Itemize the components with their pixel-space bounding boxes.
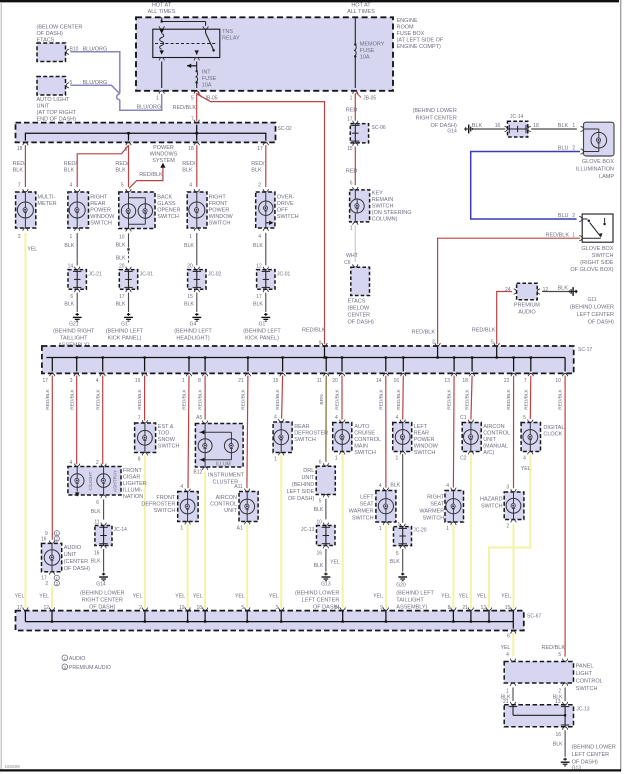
switch EST & TOD SNOW SWITCH	[135, 415, 180, 462]
svg-text:MAIN: MAIN	[354, 443, 368, 449]
svg-text:UNIT: UNIT	[483, 437, 496, 443]
svg-text:OF DASH): OF DASH)	[89, 604, 115, 610]
svg-text:RED/BLK: RED/BLK	[558, 388, 564, 409]
connector JC-01 (second)	[256, 263, 290, 299]
svg-text:1: 1	[350, 225, 353, 231]
svg-text:BLK: BLK	[91, 558, 101, 564]
svg-text:AIRCON: AIRCON	[216, 495, 237, 501]
SC-17 top pins 9 / 3 / 5	[322, 343, 500, 346]
svg-text:7: 7	[18, 182, 21, 188]
svg-text:4: 4	[180, 484, 183, 490]
svg-text:GLASS: GLASS	[157, 201, 176, 207]
svg-text:ENGINE COMPT): ENGINE COMPT)	[397, 44, 441, 50]
wire RED/BLK from SC-17 pin 5 to premium audio pin 24	[472, 292, 512, 346]
svg-text:YEL: YEL	[500, 645, 510, 651]
lamp GLOVE BOX ILLUMINATION LAMP	[572, 122, 614, 180]
svg-text:FUSE: FUSE	[360, 48, 375, 54]
svg-text:BLU/ORG: BLU/ORG	[83, 47, 108, 53]
svg-text:SWITCH: SWITCH	[209, 220, 231, 226]
wire BLU from lamp pin 2 to GLOVE BOX SWITCH pin 2	[471, 146, 580, 220]
svg-text:17: 17	[257, 146, 263, 152]
connector JC-14 (lower)	[94, 520, 127, 557]
svg-text:BACK: BACK	[157, 194, 172, 200]
svg-text:20: 20	[187, 263, 193, 269]
svg-text:OPENER: OPENER	[157, 207, 180, 213]
svg-text:18: 18	[533, 123, 539, 129]
svg-text:AUDIO: AUDIO	[64, 545, 82, 551]
switch BACK GLASS OPENER SWITCH	[119, 182, 181, 240]
svg-text:4: 4	[379, 483, 382, 489]
svg-text:3: 3	[506, 484, 509, 490]
svg-text:ASSEMBLY): ASSEMBLY)	[396, 604, 427, 610]
svg-text:2: 2	[139, 605, 142, 611]
svg-text:RED/BLK: RED/BLK	[69, 388, 75, 409]
svg-text:17: 17	[119, 294, 125, 300]
svg-text:(CENTER: (CENTER	[64, 559, 88, 565]
svg-text:5: 5	[558, 652, 561, 658]
fuse INT FUSE 10A	[187, 64, 217, 89]
svg-text:17: 17	[17, 605, 23, 611]
svg-text:(BELOW CENTER: (BELOW CENTER	[37, 25, 83, 31]
svg-text:POWER: POWER	[90, 207, 111, 213]
svg-text:REAR: REAR	[294, 424, 309, 430]
svg-text:AUTO LIGHT: AUTO LIGHT	[37, 97, 71, 103]
svg-text:1: 1	[156, 95, 159, 101]
svg-text:UNIT: UNIT	[301, 475, 314, 481]
svg-text:BLK: BLK	[253, 243, 263, 249]
svg-text:20: 20	[332, 378, 338, 384]
svg-text:JC-13: JC-13	[301, 527, 315, 533]
svg-text:BLK: BLK	[184, 243, 194, 249]
svg-text:HOT AT: HOT AT	[152, 3, 172, 9]
svg-text:BLK: BLK	[184, 301, 194, 307]
SC-17 bottom pins	[43, 373, 568, 383]
svg-text:SWITCH: SWITCH	[154, 508, 176, 514]
svg-text:POWER: POWER	[153, 145, 174, 151]
svg-text:RED/: RED/	[251, 161, 265, 167]
svg-text:1: 1	[446, 526, 449, 532]
svg-text:SWITCH: SWITCH	[372, 204, 394, 210]
svg-text:2: 2	[558, 688, 561, 694]
svg-text:(AT LEFT SIDE OF: (AT LEFT SIDE OF	[397, 38, 444, 44]
wire YEL audio unit to SC-67 pin 12	[39, 586, 52, 608]
svg-text:15: 15	[347, 146, 353, 152]
svg-text:OF DASH): OF DASH)	[288, 496, 314, 502]
wire BRN SC-17 pin 11 to DRL unit	[325, 376, 327, 462]
SC-02 pin 6	[125, 142, 132, 153]
ground G21 (behind right taillight assembly)	[53, 322, 95, 349]
svg-text:JC-02: JC-02	[208, 271, 222, 277]
wire YEL front defroster switch to SC-67 pin 19	[175, 524, 187, 609]
connector JC-14 (upper)	[495, 114, 539, 137]
svg-text:BLK: BLK	[390, 483, 400, 489]
wire YEL auto cruise to SC-67 pin 14	[330, 454, 343, 608]
wire YEL hazard switch to SC-67 pin 15	[501, 524, 513, 608]
wire YEL rear defroster switch to SC-67 pin 3	[269, 455, 281, 608]
svg-text:YEL: YEL	[269, 594, 279, 600]
svg-text:(BEHIND LOWER: (BEHIND LOWER	[80, 590, 124, 596]
svg-text:CLOCK: CLOCK	[543, 431, 562, 437]
svg-text:192809: 192809	[5, 764, 21, 769]
wire RED/BLK SC-17 pin 1 to front defroster switch	[188, 376, 189, 489]
svg-text:PREMIUM AUDIO: PREMIUM AUDIO	[69, 665, 111, 671]
label RED/BLK at panel light control switch pin 5	[542, 645, 566, 651]
wire RED from SC-06 pin 15 to KEY REMAIN SWITCH	[346, 147, 358, 186]
svg-text:(AT TOP RIGHT: (AT TOP RIGHT	[37, 110, 77, 116]
wire RED/BLK SC-02 pin 18 to right front power window switch	[182, 145, 197, 187]
svg-text:6: 6	[96, 500, 99, 506]
svg-text:YEL: YEL	[15, 594, 25, 600]
svg-text:2: 2	[96, 460, 99, 466]
svg-text:RED/BLK: RED/BLK	[275, 388, 281, 409]
svg-text:9: 9	[380, 605, 383, 611]
connector JC-20	[394, 522, 427, 557]
svg-text:LIGHT: LIGHT	[576, 671, 593, 677]
svg-text:RED/BLK: RED/BLK	[523, 388, 529, 409]
svg-text:20: 20	[119, 263, 125, 269]
svg-text:(MANUAL: (MANUAL	[483, 443, 508, 449]
svg-text:RED/BLK: RED/BLK	[472, 327, 496, 333]
switch PANEL LIGHT CONTROL SWITCH	[504, 652, 602, 694]
svg-text:FRONT: FRONT	[123, 468, 143, 474]
wire RED/BLK SC-17 pin 4 to front cigar lighter pin 2	[102, 376, 104, 465]
svg-text:JC-20: JC-20	[413, 528, 427, 534]
svg-text:LEFT SIDE: LEFT SIDE	[287, 489, 315, 495]
svg-text:YEL: YEL	[501, 594, 511, 600]
svg-text:GLOVE BOX: GLOVE BOX	[581, 246, 613, 252]
svg-text:16: 16	[94, 551, 100, 557]
svg-text:YEL: YEL	[27, 246, 37, 252]
svg-text:SWITCH: SWITCH	[576, 686, 598, 692]
ground G4 (behind left headlight)	[174, 322, 212, 342]
svg-text:G4: G4	[190, 322, 197, 328]
svg-text:RED/: RED/	[182, 161, 196, 167]
svg-text:YEL: YEL	[133, 594, 143, 600]
svg-text:C6: C6	[344, 260, 351, 266]
svg-text:LEFT: LEFT	[360, 495, 374, 501]
svg-text:G14: G14	[96, 581, 106, 587]
svg-text:FUSE BOX: FUSE BOX	[397, 31, 425, 37]
wire YEL aircon A1 to SC-67 pin 5	[235, 524, 247, 609]
svg-text:BLK: BLK	[91, 509, 101, 515]
svg-text:RED/BLK: RED/BLK	[506, 388, 512, 409]
svg-text:CONTROL: CONTROL	[210, 502, 237, 508]
switch KEY REMAIN SWITCH (ON STEERING COLUMN)	[350, 181, 412, 232]
wire BLK front cigar lighter to JC-14	[91, 499, 104, 519]
svg-text:(ON STEERING: (ON STEERING	[372, 210, 412, 216]
svg-text:(BEHIND LOWER: (BEHIND LOWER	[412, 108, 456, 114]
svg-text:SYSTEM: SYSTEM	[152, 158, 175, 164]
wire RED/BLK SC-17 pin 7 to digital clock	[529, 376, 532, 419]
wire BLK to ground G1 (second)	[253, 293, 270, 322]
svg-text:1: 1	[70, 234, 73, 240]
svg-text:1: 1	[506, 688, 509, 694]
svg-text:22: 22	[504, 378, 510, 384]
svg-text:18: 18	[197, 605, 203, 611]
svg-text:JC-13: JC-13	[576, 706, 590, 712]
fuse box bottom pins 1 / 5 JB-05 / 1 JB-05	[156, 91, 376, 102]
wire RED/BLK SC-17 pin 18 to aircon control unit C1	[471, 376, 472, 420]
svg-text:RED/: RED/	[13, 161, 27, 167]
svg-text:DRIVE: DRIVE	[277, 201, 294, 207]
svg-text:1: 1	[189, 234, 192, 240]
svg-text:JC-14: JC-14	[114, 527, 128, 533]
svg-text:RED/BLK: RED/BLK	[182, 388, 188, 409]
svg-text:RED/BLK: RED/BLK	[465, 388, 471, 409]
wire BLK DRL unit to JC-13	[314, 499, 326, 520]
svg-text:AUTO: AUTO	[354, 424, 370, 430]
svg-text:BLU/ORG: BLU/ORG	[137, 105, 162, 111]
svg-text:RED/BLK: RED/BLK	[542, 645, 566, 651]
wire BLK to ground G4	[184, 293, 201, 322]
svg-text:CENTER: CENTER	[348, 312, 371, 318]
wire YEL right seat warmer switch to SC-67 pin 8	[441, 525, 453, 609]
wire BLK JC-14 to ground G14	[91, 549, 108, 581]
connector JC-13 (left)	[301, 520, 335, 557]
wire BLK from G14 to JC-14	[464, 123, 505, 129]
svg-text:RED/BLK: RED/BLK	[396, 388, 402, 409]
label AUTO LIGHT UNIT (AT TOP RIGHT END OF DASH)	[37, 97, 77, 123]
svg-text:4: 4	[506, 652, 509, 658]
ground G11 (behind lower left center of dash)	[569, 287, 614, 325]
svg-text:JC-01: JC-01	[277, 271, 291, 277]
svg-text:RIGHT: RIGHT	[209, 194, 227, 200]
svg-text:1: 1	[350, 95, 353, 101]
svg-text:14: 14	[334, 605, 340, 611]
clock DIGITAL CLOCK	[521, 415, 564, 462]
unit AUDIO UNIT (CENTER OF DASH)	[41, 531, 90, 587]
svg-text:G11: G11	[588, 297, 597, 303]
wire RED/BLK SC-02 pin 17 to over-drive off switch	[251, 145, 265, 187]
svg-text:WINDOW: WINDOW	[90, 214, 115, 220]
wire BLK from premium audio pin 12 to ground G11	[542, 286, 577, 292]
svg-text:1: 1	[572, 123, 575, 129]
svg-text:17: 17	[347, 116, 353, 122]
switch OVER-DRIVE OFF SWITCH	[256, 182, 299, 240]
svg-text:4: 4	[70, 460, 73, 466]
svg-text:YEL: YEL	[175, 594, 185, 600]
wire RED/BLK SC-17 pin 10 to panel light control switch pin 5	[564, 376, 566, 657]
svg-text:SWITCH: SWITCH	[90, 220, 112, 226]
wire YEL SC-67 pin 6 to panel light control switch pin 4	[500, 633, 513, 656]
svg-text:YEL: YEL	[521, 466, 531, 472]
svg-text:WINDOW: WINDOW	[414, 443, 439, 449]
svg-text:BLK: BLK	[390, 559, 400, 565]
switch REAR DEFROSTER SWITCH	[273, 414, 328, 462]
svg-text:COLUMN): COLUMN)	[372, 217, 398, 223]
svg-text:B12: B12	[193, 470, 202, 476]
svg-text:4: 4	[189, 182, 192, 188]
svg-text:OF DASH): OF DASH)	[588, 319, 614, 325]
svg-text:A5: A5	[196, 415, 202, 421]
svg-text:DEFROSTER: DEFROSTER	[141, 502, 175, 508]
svg-text:JC-21: JC-21	[88, 271, 102, 277]
wire YEL left seat warmer switch to SC-67 pin 9	[373, 525, 386, 609]
cluster INSTRUMENT CLUSTER (illumination lamps)	[193, 415, 244, 485]
svg-text:11: 11	[94, 520, 99, 526]
svg-text:15: 15	[505, 605, 511, 611]
wire RED/BLK SC-17 pin 13 to right seat warmer switch	[452, 376, 455, 488]
svg-text:YEL: YEL	[477, 594, 487, 600]
svg-text:RED: RED	[346, 108, 358, 114]
svg-text:13: 13	[444, 378, 450, 384]
svg-text:C2: C2	[460, 456, 467, 462]
svg-text:PREMIUM: PREMIUM	[514, 303, 540, 309]
svg-text:JC-01: JC-01	[140, 271, 154, 277]
svg-text:ILLUM: ILLUM	[216, 461, 231, 467]
wire YEL instrument cluster B12 to SC-67 pin 18	[193, 471, 205, 608]
wire RED/BLK SC-17 pin 20 to auto cruise control main switch	[341, 376, 343, 420]
svg-text:3: 3	[275, 605, 278, 611]
svg-text:19: 19	[135, 378, 141, 384]
SC-02 pin 18 (to right front power window switch)	[188, 142, 199, 151]
svg-text:AUDIO: AUDIO	[69, 656, 85, 662]
svg-text:7: 7	[191, 117, 194, 123]
unit ETACS (below center of dash)	[344, 260, 374, 325]
meter MULTI-METER (illumination)	[16, 182, 57, 240]
svg-text:FUSE: FUSE	[202, 76, 217, 82]
connector JC-21	[68, 263, 102, 299]
junction block SC-67 (bus bar)	[16, 611, 542, 631]
svg-text:WARMER: WARMER	[349, 509, 374, 515]
svg-text:5: 5	[523, 415, 526, 421]
svg-text:RED/: RED/	[115, 161, 129, 167]
svg-text:1: 1	[572, 232, 575, 238]
svg-text:A/C): A/C)	[483, 450, 494, 456]
svg-text:SC-67: SC-67	[527, 613, 541, 619]
svg-text:18: 18	[188, 146, 194, 152]
svg-text:LEFT CENTER: LEFT CENTER	[572, 752, 610, 758]
svg-text:G1: G1	[259, 322, 266, 328]
svg-text:SC-06: SC-06	[372, 125, 386, 131]
junction block SC-17 (bus bar)	[42, 346, 592, 373]
svg-text:WARMER: WARMER	[419, 509, 444, 515]
svg-text:BLK: BLK	[64, 243, 74, 249]
wire RED/BLK SC-17 pin 3 to front cigar lighter pin 4	[76, 376, 78, 465]
svg-text:3: 3	[70, 378, 73, 384]
svg-text:ROOM: ROOM	[397, 25, 415, 31]
svg-text:8: 8	[198, 378, 201, 384]
svg-text:MEMORY: MEMORY	[360, 42, 385, 48]
svg-text:BLK: BLK	[116, 255, 126, 261]
wire BLK right rear power window switch to JC-21	[64, 233, 77, 266]
svg-text:SWITCH: SWITCH	[352, 516, 374, 522]
svg-text:1: 1	[274, 457, 277, 463]
wire BLK panel light switch pin 1 to JC-13	[501, 687, 513, 701]
wire BLK back glass opener to JC-01 with splice	[116, 233, 130, 263]
wire RED/BLK SC-02 pin 6 to right rear power window switch	[64, 145, 129, 187]
svg-text:10: 10	[119, 234, 125, 240]
wire color labels below SC-17	[45, 388, 564, 409]
junction block SC-02 (bus bar)	[16, 123, 292, 143]
svg-text:C/LIGHT: C/LIGHT	[88, 471, 94, 490]
fuse box (dashed enclosure, hot at all times)	[136, 17, 393, 91]
ground G20 (behind left taillight assembly)	[396, 582, 434, 610]
svg-text:OF DASH): OF DASH)	[572, 759, 598, 765]
svg-text:10: 10	[555, 378, 561, 384]
svg-text:RIGHT CENTER: RIGHT CENTER	[416, 115, 457, 121]
svg-text:AUDIO: AUDIO	[518, 310, 536, 316]
svg-text:ILLUMI-: ILLUMI-	[123, 487, 143, 493]
svg-text:15: 15	[187, 294, 193, 300]
svg-text:JB-05: JB-05	[205, 95, 218, 101]
wire RED/BLK SC-17 pin 17 to audio unit	[51, 376, 53, 540]
connector JC-01 (first)	[119, 263, 153, 299]
legend circled 1 AUDIO	[62, 655, 85, 662]
svg-text:12: 12	[43, 605, 49, 611]
svg-text:BLK: BLK	[472, 123, 483, 129]
svg-text:INT: INT	[202, 70, 212, 76]
svg-text:16: 16	[394, 378, 400, 384]
svg-text:ETACS: ETACS	[348, 298, 366, 304]
wire BLK right front power window switch to JC-02	[184, 233, 197, 266]
svg-text:1: 1	[379, 526, 382, 532]
svg-text:BLK: BLK	[64, 301, 74, 307]
svg-text:RED/: RED/	[64, 161, 78, 167]
svg-text:SNOW: SNOW	[158, 437, 176, 443]
svg-text:10A: 10A	[360, 55, 370, 61]
svg-text:BLU/ORG: BLU/ORG	[83, 80, 108, 86]
wire RED/BLK SC-17 pin 19 to EST & TOD snow switch	[144, 376, 146, 421]
svg-text:C1: C1	[460, 415, 467, 421]
svg-text:AIRCON: AIRCON	[483, 424, 504, 430]
svg-text:(BEHIND: (BEHIND	[292, 482, 315, 488]
svg-text:RED/BLK: RED/BLK	[137, 388, 143, 409]
label HOT AT ALL TIMES (right)	[347, 3, 375, 16]
svg-text:MULTI-: MULTI-	[37, 194, 55, 200]
svg-text:1: 1	[182, 378, 185, 384]
svg-text:A11: A11	[234, 484, 243, 490]
svg-text:RED/BLK: RED/BLK	[241, 388, 247, 409]
svg-text:WINDOW: WINDOW	[209, 214, 234, 220]
svg-text:RED/BLK: RED/BLK	[302, 327, 326, 333]
wire RED/BLK from JB-05 pin 5 down to junction SC-02 pin 7	[173, 93, 197, 121]
svg-text:RED/BLK: RED/BLK	[378, 388, 384, 409]
wire RED/BLK SC-17 pin 15 to rear defroster switch	[282, 376, 283, 419]
svg-text:OF DASH): OF DASH)	[348, 319, 374, 325]
svg-text:BLK: BLK	[314, 507, 324, 513]
svg-text:ASHTRAY: ASHTRAY	[112, 469, 118, 492]
wire RED/BLK from power windows system to back glass opener pin 5	[129, 168, 163, 189]
svg-text:LEFT CENTER: LEFT CENTER	[302, 597, 340, 603]
svg-text:POWER: POWER	[209, 207, 230, 213]
svg-text:ALL TIMES: ALL TIMES	[347, 9, 375, 15]
unit ETACS (top left)	[37, 43, 69, 62]
wire BLK to ground G21	[64, 293, 81, 322]
wire BLU/ORG from AUTO LIGHT UNIT pin 5	[70, 80, 119, 93]
svg-text:G13: G13	[572, 765, 582, 771]
svg-text:LIGHTER: LIGHTER	[123, 481, 147, 487]
svg-text:HAZARD: HAZARD	[480, 496, 503, 502]
svg-text:KEY: KEY	[372, 191, 383, 197]
svg-text:1: 1	[335, 456, 338, 462]
svg-text:(BEHIND LOWER: (BEHIND LOWER	[572, 744, 616, 750]
svg-text:4: 4	[96, 378, 99, 384]
svg-text:2: 2	[258, 182, 261, 188]
svg-text:2: 2	[572, 213, 575, 219]
svg-text:SWITCH: SWITCH	[414, 450, 436, 456]
svg-text:RED/BLK: RED/BLK	[335, 388, 341, 409]
svg-text:14: 14	[376, 378, 382, 384]
svg-text:OF DASH): OF DASH)	[37, 31, 63, 37]
svg-text:A1: A1	[237, 526, 243, 532]
svg-text:10A: 10A	[202, 83, 212, 89]
svg-text:CRUISE: CRUISE	[354, 430, 375, 436]
svg-text:G13: G13	[321, 581, 331, 587]
wire RED/BLK from JB-05 pin 5 to junction SC-17 pin 9	[197, 94, 326, 347]
wire WHT from KEY REMAIN SWITCH pin 1 to ETACS C6	[346, 226, 359, 262]
svg-text:G14: G14	[447, 128, 457, 134]
